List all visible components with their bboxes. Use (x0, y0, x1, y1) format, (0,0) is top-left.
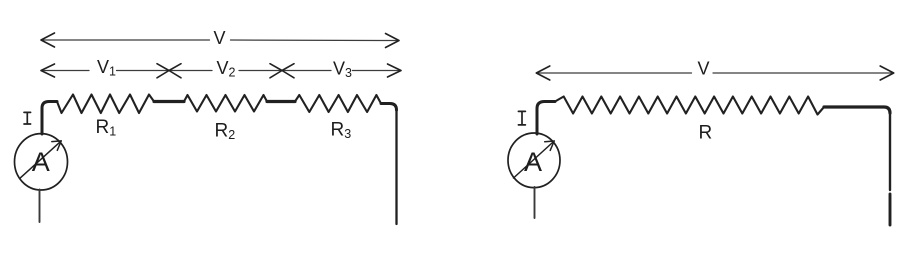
svg-text:R2: R2 (215, 121, 236, 143)
svg-text:V2: V2 (217, 58, 236, 80)
svg-text:A: A (32, 147, 50, 177)
svg-text:V: V (697, 59, 709, 79)
svg-text:A: A (524, 147, 542, 177)
svg-text:R3: R3 (331, 120, 352, 142)
svg-text:V3: V3 (333, 59, 352, 81)
svg-text:V: V (213, 28, 225, 48)
svg-text:R1: R1 (96, 117, 117, 139)
svg-text:R: R (699, 123, 713, 144)
svg-text:V1: V1 (97, 57, 116, 79)
